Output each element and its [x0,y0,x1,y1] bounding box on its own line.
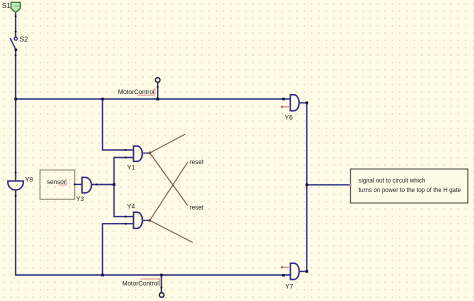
text cursor (pink) [65,179,67,185]
gate Y3 (AND) [82,177,92,193]
connector S1 (green input symbol) [11,2,20,12]
pin Y4 input bottom [125,223,127,225]
svg-text:MotorControl: MotorControl [122,281,158,288]
wire branch to note box [307,184,351,186]
svg-text:S1: S1 [2,3,11,10]
node junction bottom rail / Y7 pin [282,274,285,277]
wire MotorControl bottom tap [160,275,162,292]
rubber-band net lines (reset) [150,134,193,242]
node junction bottom rail / Y4 branch [101,274,104,277]
pin S2 lower stub [15,54,17,56]
wire Y1 diagonal to reset label [150,153,188,206]
pin S2 bottom [15,48,18,51]
node Y4 output ripup point [148,219,151,222]
wire MotorControl top tap [157,83,159,99]
pin Y1 input bottom [125,157,127,159]
node junction bus / Y3 output [113,183,116,186]
svg-text:Y3: Y3 [76,196,84,203]
switch S2 [10,37,17,50]
svg-text:Y7: Y7 [285,284,293,291]
wire sensor to Y3 input [75,183,82,185]
pin Y3 input [74,183,76,185]
gate Y6 (AND) [290,95,299,111]
node junction bottom rail / MotorControl [160,274,163,277]
svg-text:S2: S2 [20,37,29,44]
wire top rail [16,98,291,100]
wire Y1 diagonal up-right [150,134,186,153]
svg-text:signal out to circuit which: signal out to circuit which [359,179,426,185]
node junction top rail / S-branch [14,98,17,101]
wire Y3 output to bus [93,184,115,186]
gate Y4 (AND) [134,212,143,228]
pin MotorControl top [157,86,159,88]
pin Y4 input top [125,216,127,218]
pin Y7 unconnected input (pink) [281,266,291,268]
svg-text:Y6: Y6 [285,115,293,122]
wire Y6 output to right rail down to Y7 output [300,103,307,272]
wire branch to Y4 bottom input [103,224,134,275]
gate Y7 (AND) [290,263,299,279]
pin Y8 output [15,195,17,197]
wire Y4 diagonal down-right [150,220,193,242]
wire Y4 diagonal to reset label [150,162,188,221]
wire Y8 output down to bottom rail [16,190,291,275]
pin S1 bottom [15,15,17,17]
connector MotorControl top (circle) [155,78,160,83]
svg-text:Y1: Y1 [127,165,135,172]
pink cursor MotorControl top [154,88,156,95]
svg-text:turns on power to the top of t: turns on power to the top of the H gate [359,188,462,194]
node corner Y6 output [306,102,309,105]
pin note box endpoint [349,184,351,186]
pin S2 top [15,31,17,33]
wire Y4 output stub [143,219,150,221]
wire Y1 output stub [142,152,149,154]
pink box MotorControl bottom [140,279,159,286]
svg-text:reset: reset [190,159,204,166]
pin Y6 unconnected input (pink) [281,106,291,108]
note box: signal out text [351,169,468,203]
node Y1 output ripup point [148,152,151,155]
node junction top rail / Y6 pin [282,98,285,101]
gate Y8 (AND, pointing down) [8,181,23,190]
comment box sensor [40,170,75,199]
svg-text:reset: reset [190,205,204,212]
svg-text:Y8: Y8 [25,176,33,183]
node corner Y7 output [306,270,309,273]
pin Y3 output [96,184,98,186]
wire Y8 output stub [15,190,17,196]
connector MotorControl bottom (circle) [159,293,164,298]
wire S2 to Y8 input through node at y=99 [15,50,17,181]
node junction right rail / note branch [306,184,309,187]
wire bus Y1 bottom to Y4 top [114,158,134,217]
node junction top rail / Y1 branch [101,98,104,101]
node junction top rail / MotorControl [156,98,159,101]
svg-text:Y4: Y4 [127,204,135,211]
wire S1 to switch S2 [15,12,17,37]
misspell underline (pink) [59,184,67,186]
pin Y1 input top [125,149,127,151]
gate Y1 (AND) [134,146,143,161]
pin MotorControl bottom [160,287,162,289]
wire branch to Y1 top input [103,99,134,150]
pink underline MotorControl top [137,94,154,96]
pin Y8 input [15,172,17,174]
pin end dots [15,15,163,288]
